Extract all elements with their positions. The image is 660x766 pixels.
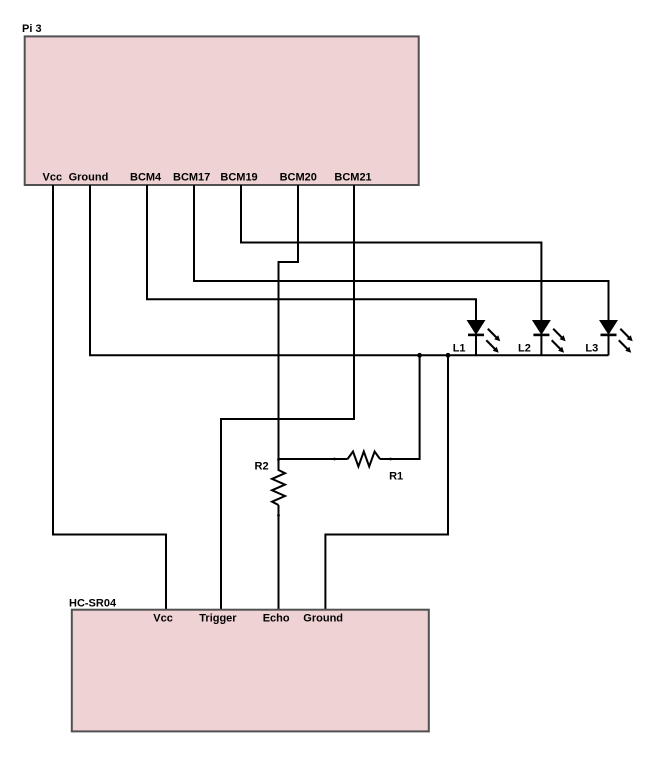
svg-text:Echo: Echo — [263, 612, 290, 624]
wire Pi Ground down to ground rail — [89, 185, 91, 355]
resistor R2 zigzag — [272, 460, 285, 506]
svg-text:BCM21: BCM21 — [334, 171, 371, 183]
wire ground rail to HC-SR04 Ground — [325, 355, 448, 610]
terminal dot R2 top — [277, 458, 280, 461]
terminal dot R1 left — [333, 458, 336, 461]
svg-text:BCM4: BCM4 — [130, 171, 162, 183]
wire Pi Vcc to HC-SR04 Vcc — [53, 185, 166, 611]
svg-text:HC-SR04: HC-SR04 — [69, 598, 117, 610]
svg-text:Vcc: Vcc — [43, 171, 63, 183]
svg-text:BCM19: BCM19 — [220, 171, 257, 183]
svg-text:L1: L1 — [453, 343, 466, 355]
svg-text:Pi 3: Pi 3 — [22, 23, 42, 35]
svg-text:L3: L3 — [585, 343, 598, 355]
wire BCM19 to LED L2 anode — [241, 185, 541, 321]
wire BCM17 to LED L3 anode — [194, 185, 609, 321]
resistor R1 zigzag — [348, 452, 380, 467]
wire divider node to R1 left lead — [279, 458, 348, 460]
wire BCM21 to HC-SR04 Trigger — [221, 185, 354, 611]
svg-text:BCM20: BCM20 — [280, 171, 317, 183]
svg-text:Ground: Ground — [69, 171, 109, 183]
wire R2 bottom to HC-SR04 Echo — [278, 505, 280, 611]
wire R1 right lead up to ground rail — [380, 355, 420, 459]
svg-text:R1: R1 — [389, 470, 403, 482]
Pi 3 module body — [25, 36, 419, 185]
LED L2 — [533, 321, 565, 356]
svg-text:Vcc: Vcc — [153, 612, 173, 624]
svg-text:BCM17: BCM17 — [173, 171, 210, 183]
svg-text:R2: R2 — [255, 460, 269, 472]
LED L1 — [468, 321, 500, 356]
terminal dot R2 bottom — [277, 514, 280, 517]
junction dot R1/ground rail — [417, 353, 422, 358]
svg-text:Trigger: Trigger — [199, 612, 237, 624]
svg-text:Ground: Ground — [303, 612, 343, 624]
svg-text:L2: L2 — [518, 343, 531, 355]
HC-SR04 module body — [72, 610, 429, 732]
terminal dot R1 right — [389, 458, 392, 461]
wire ground rail (node GND) — [89, 354, 609, 356]
junction dot HC ground/ground rail — [446, 353, 451, 358]
LED L3 — [601, 321, 633, 356]
wire BCM4 to LED L1 anode — [147, 185, 476, 321]
wire BCM20 to divider node — [279, 185, 299, 459]
